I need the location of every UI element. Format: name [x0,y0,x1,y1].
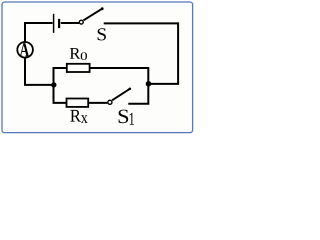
label S1 [119,110,129,124]
switch S1 (pivot circle + lever arm) [108,100,112,104]
label S [98,28,106,40]
wire R0 branch right lead [90,67,149,69]
wire R0 branch left lead [53,67,68,69]
wire Rx to switch S1 pivot [88,102,107,104]
resistor R0 [67,64,90,72]
battery (long plate + short thick plate) [53,14,55,33]
label R0 [70,48,81,59]
ammeter A [17,42,33,58]
wire left branch vertical [54,67,67,103]
wire from switch S right, down right side, left into node B [104,23,178,84]
node A junction dot [51,82,56,87]
wire from ammeter top up and right to battery negative plate [25,23,53,42]
node B junction dot [146,81,152,87]
label Rx [70,110,81,122]
wire node A to ammeter bottom [25,58,54,85]
wire from battery to switch S pivot [61,22,79,24]
wire right branch vertical [128,67,148,104]
switch S (pivot circle + lever arm) [79,20,83,24]
resistor Rx [67,99,89,107]
